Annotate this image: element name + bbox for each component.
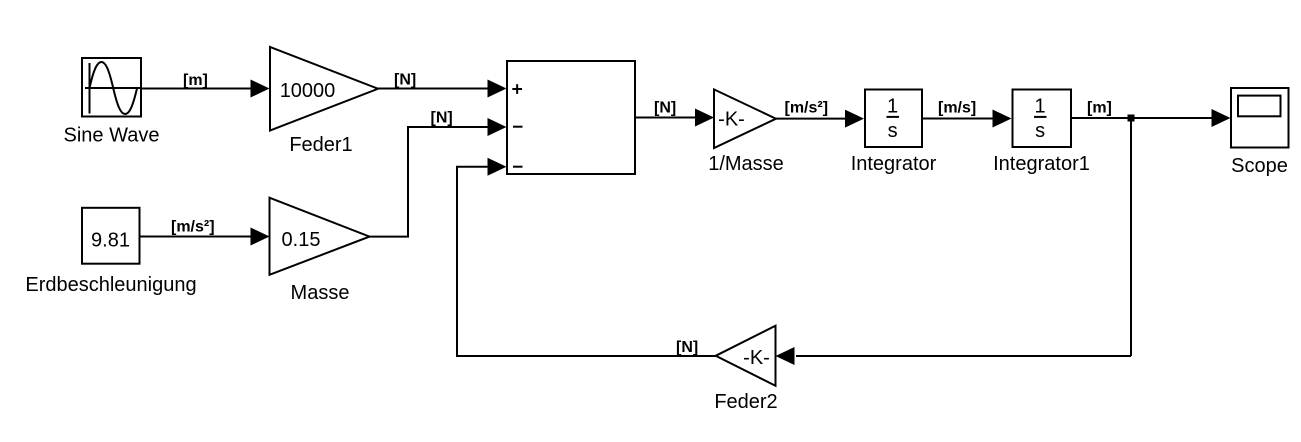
svg-text:Integrator1: Integrator1 [993, 153, 1090, 175]
wire feedback from junction down [1130, 117, 1132, 356]
svg-text:[N]: [N] [431, 110, 453, 127]
wire Integrator1 to Scope [1070, 109, 1231, 127]
gain Feder1 [270, 47, 378, 131]
svg-text:Integrator: Integrator [851, 153, 937, 175]
svg-text:Erdbeschleunigung: Erdbeschleunigung [25, 274, 196, 296]
svg-text:s: s [1035, 120, 1045, 142]
constant block 9.81 [82, 208, 140, 264]
svg-text:1/Masse: 1/Masse [708, 153, 784, 175]
integrator block Integrator [865, 90, 922, 148]
svg-text:[N]: [N] [676, 339, 698, 356]
svg-text:[N]: [N] [654, 100, 676, 117]
svg-text:Masse: Masse [291, 282, 350, 304]
svg-text:-K-: -K- [718, 109, 745, 131]
wire Feder2 to Sum input 3 [457, 158, 716, 356]
svg-text:[m/s²]: [m/s²] [785, 100, 829, 117]
junction node [1128, 115, 1135, 122]
svg-text:[N]: [N] [394, 72, 416, 89]
scope block [1231, 88, 1289, 148]
gain Masse [270, 198, 370, 275]
svg-text:Sine Wave: Sine Wave [64, 125, 160, 147]
svg-text:0.15: 0.15 [282, 229, 321, 251]
wire 1/Masse to Integrator [776, 110, 864, 128]
wire feedback to Feder2 [776, 347, 1132, 365]
svg-text:10000: 10000 [280, 80, 336, 102]
svg-text:Feder1: Feder1 [289, 134, 352, 156]
gain Feder2 [716, 326, 776, 386]
svg-text:1: 1 [887, 96, 898, 118]
svg-text:[m]: [m] [183, 72, 208, 89]
svg-text:[m]: [m] [1087, 100, 1112, 117]
svg-text:1: 1 [1035, 96, 1046, 118]
block Sine Wave [82, 58, 141, 117]
svg-text:[m/s]: [m/s] [938, 100, 976, 117]
svg-text:Scope: Scope [1231, 155, 1288, 177]
wire Sine Wave to Feder1 [142, 80, 270, 98]
wire Sum to 1/Masse [635, 109, 714, 127]
svg-text:-K-: -K- [743, 347, 770, 369]
svg-text:Feder2: Feder2 [714, 391, 777, 413]
sum block [507, 61, 635, 174]
svg-text:9.81: 9.81 [91, 230, 130, 252]
integrator block Integrator1 [1013, 90, 1072, 148]
wire Integrator to Integrator1 [923, 110, 1012, 128]
gain 1/Masse [714, 89, 776, 148]
wire Feder1 to Sum [378, 80, 507, 98]
wire Masse to Sum input 2 [370, 118, 507, 237]
svg-text:[m/s²]: [m/s²] [171, 219, 215, 236]
wire 9.81 to Masse [140, 228, 270, 246]
svg-text:s: s [888, 120, 898, 142]
